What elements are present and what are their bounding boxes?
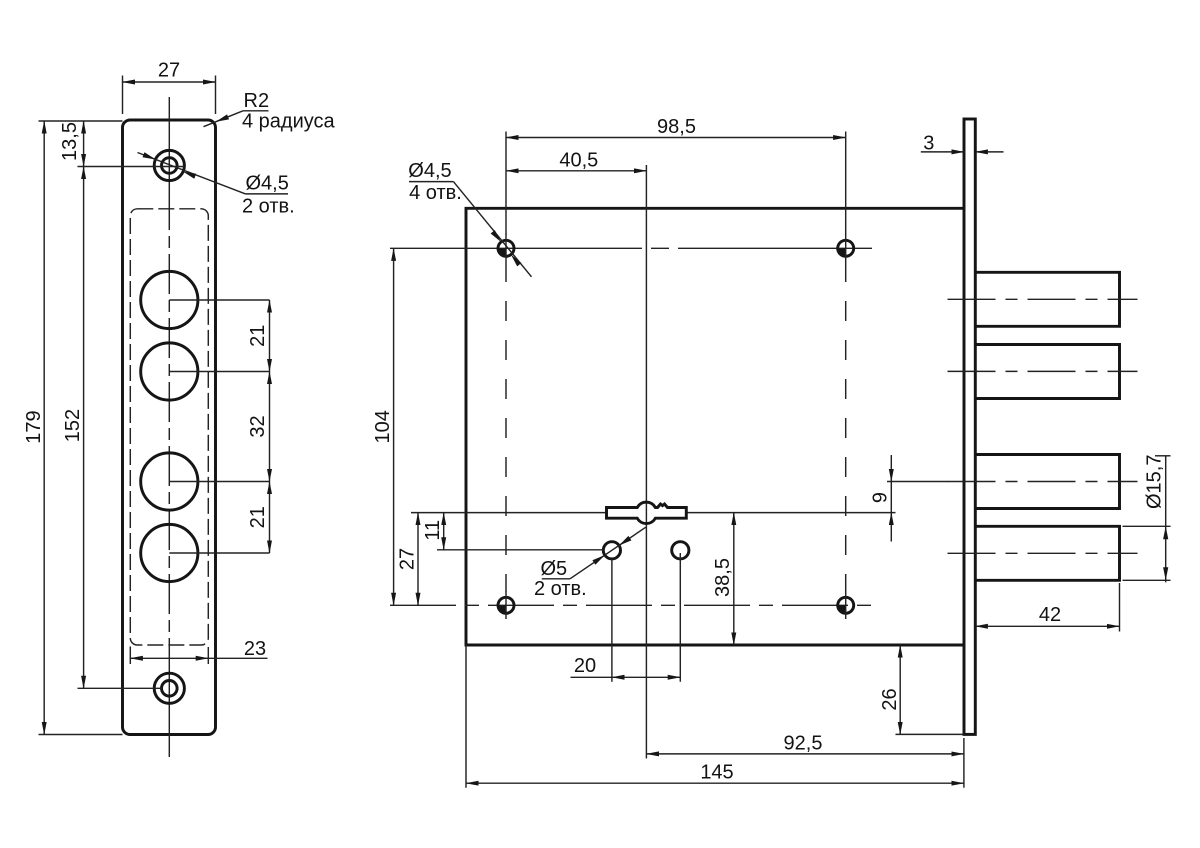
extension line above right hole [845, 132, 847, 236]
dimension 98,5 [506, 116, 846, 138]
faceplate outline (left view) [123, 120, 216, 735]
keyhole horizontal centerline [411, 512, 896, 514]
dimension 42 [975, 583, 1119, 632]
dimension 145 [466, 645, 964, 788]
svg-text:27: 27 [158, 60, 180, 82]
keyhole vertical centerline [645, 165, 647, 759]
svg-text:145: 145 [700, 762, 733, 784]
dimension 20 [571, 553, 681, 682]
svg-text:92,5: 92,5 [784, 732, 823, 754]
svg-text:2 отв.: 2 отв. [242, 196, 295, 218]
svg-text:4 отв.: 4 отв. [409, 182, 462, 204]
svg-text:23: 23 [244, 638, 266, 660]
svg-text:32: 32 [247, 415, 269, 437]
svg-text:11: 11 [422, 520, 444, 541]
svg-text:4 радиуса: 4 радиуса [242, 111, 336, 133]
dimension 11 [422, 513, 603, 550]
svg-text:9: 9 [869, 492, 891, 503]
mounting hole bottom-right [838, 592, 854, 620]
dimension 26 [879, 645, 964, 734]
screw hole top (left view) [154, 150, 184, 180]
mounting hole bottom-left [498, 592, 514, 620]
dimension 3 (faceplate thickness) [921, 133, 1004, 155]
svg-text:R2: R2 [244, 90, 270, 112]
screw hole bottom (left view) [154, 673, 184, 703]
svg-text:Ø15,7: Ø15,7 [1144, 455, 1166, 509]
svg-text:3: 3 [923, 133, 934, 155]
svg-text:42: 42 [1039, 604, 1061, 626]
bolt hole circle 2 [141, 343, 198, 400]
lever hole 1 (diameter 5) [603, 542, 620, 559]
bolt hole circle 3 [141, 453, 198, 510]
vertical dashed line through left mounting holes [505, 262, 507, 592]
mounting hole top-right [838, 235, 854, 263]
svg-text:21: 21 [247, 506, 269, 528]
vertical dashed line through right mounting holes [845, 262, 847, 592]
dimension 179 [23, 121, 123, 735]
bolt 1 [976, 272, 1120, 326]
svg-text:38,5: 38,5 [712, 558, 734, 597]
mounting hole top-left [498, 235, 514, 263]
leader diameter 4,5 2 holes (left view) [138, 152, 295, 217]
svg-text:40,5: 40,5 [559, 149, 598, 171]
svg-text:152: 152 [62, 409, 84, 442]
horizontal centerline through bottom mounting holes [390, 604, 872, 606]
leader R2 [204, 90, 336, 133]
bolt 3 [976, 455, 1120, 509]
dimension 9 [869, 455, 948, 542]
bolt circle center leader lines [169, 300, 269, 553]
svg-text:Ø4,5: Ø4,5 [408, 160, 451, 182]
svg-text:104: 104 [372, 410, 394, 443]
leader diameter 4,5 4 holes (right view) [408, 160, 531, 277]
dimension 13,5 [39, 121, 185, 167]
bolt centerlines [948, 299, 1138, 553]
inner dashed contour of faceplate [130, 209, 208, 645]
dimension 92,5 [646, 732, 964, 787]
bolt hole circle 4 [141, 524, 198, 581]
keyhole key profile [607, 502, 687, 523]
svg-text:13,5: 13,5 [59, 122, 81, 161]
dimension 27 (faceplate width) [123, 60, 216, 115]
bolt 4 [976, 526, 1120, 580]
faceplate vertical centerline [168, 97, 170, 757]
lock body outline (right view) [466, 208, 964, 645]
dimension 104 [372, 248, 394, 605]
dimension 152 [62, 167, 162, 689]
dimension 23 [130, 638, 267, 664]
svg-text:Ø5: Ø5 [541, 558, 568, 580]
bolt 2 [976, 345, 1120, 399]
svg-text:98,5: 98,5 [657, 116, 696, 138]
svg-text:179: 179 [23, 410, 45, 443]
faceplate bar (edge view) [964, 119, 975, 734]
horizontal centerline through top mounting holes [390, 247, 872, 249]
extension line above left hole [505, 132, 507, 236]
dimension 27 (right view) [396, 513, 418, 606]
lever hole 2 (diameter 5) [672, 542, 689, 559]
bolt hole circle 1 [141, 271, 198, 328]
leader diameter 5 2 holes [534, 527, 646, 600]
dimension 38,5 [712, 513, 734, 645]
svg-text:21: 21 [247, 325, 269, 347]
dimension 40,5 [506, 149, 646, 171]
svg-text:2 отв.: 2 отв. [534, 578, 587, 600]
svg-text:Ø4,5: Ø4,5 [246, 173, 289, 195]
svg-text:26: 26 [879, 688, 901, 710]
dimension diameter 15,7 [1123, 455, 1171, 583]
svg-text:27: 27 [396, 548, 418, 570]
svg-text:20: 20 [574, 655, 596, 677]
dimensions 21 32 21 (bolt circle spacing) [247, 300, 270, 553]
